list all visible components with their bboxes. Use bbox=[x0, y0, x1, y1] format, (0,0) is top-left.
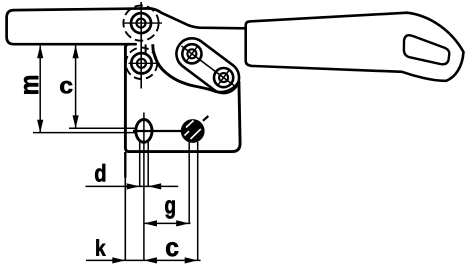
bottom dim line (k and c) bbox=[86, 259, 201, 261]
dim d line bbox=[86, 185, 179, 187]
pivot U1 inner circle bbox=[137, 19, 146, 28]
label c (upper) bbox=[60, 81, 72, 93]
spindle white hatch slits bbox=[185, 121, 201, 140]
label g bbox=[165, 200, 174, 218]
link pin A outer circle bbox=[182, 44, 201, 63]
hole edge extension left bbox=[139, 140, 141, 186]
hole edge extension right bbox=[147, 140, 149, 186]
hole to spindle centerline bbox=[133, 130, 184, 132]
dim m arrow up bbox=[37, 45, 43, 58]
pivot U2 horizontal centerline bbox=[129, 62, 158, 64]
pivot U1 horizontal centerline bbox=[123, 22, 162, 24]
dim k arrow right bbox=[112, 257, 125, 263]
link pin B perpendicular tick bbox=[218, 70, 229, 85]
pivot U2 dashed circle bbox=[126, 48, 157, 79]
link pin A inner circle bbox=[187, 49, 196, 58]
pivot U2 outer circle bbox=[131, 53, 151, 73]
dim c arrow up bbox=[73, 45, 79, 58]
spindle extension right line bbox=[197, 142, 199, 260]
body left edge extension line bbox=[124, 152, 126, 260]
pivot U1 dashed circle bbox=[123, 6, 158, 41]
flange short edge bbox=[145, 44, 147, 53]
link plate capsule bbox=[170, 32, 245, 99]
link pin B outer circle bbox=[214, 68, 233, 87]
dim m arrow down bbox=[37, 120, 43, 133]
handle grip slot bbox=[404, 35, 449, 64]
handle outline bbox=[246, 13, 464, 81]
label c (bottom) bbox=[166, 242, 178, 256]
dim c extension line bbox=[69, 127, 137, 129]
dim g arrow right bbox=[176, 220, 189, 226]
dim d arrow right bbox=[127, 183, 140, 189]
clamp arm (bar) outline bbox=[7, 8, 245, 44]
dim g line bbox=[144, 222, 191, 224]
body left edge extension thick segment bbox=[124, 152, 126, 178]
dim c arrow right bbox=[185, 257, 198, 263]
spindle extension left line bbox=[188, 142, 190, 223]
dim m vertical line bbox=[39, 46, 41, 133]
dim c arrow down bbox=[73, 115, 79, 128]
link pin B inner circle bbox=[219, 73, 228, 82]
label k bbox=[96, 239, 105, 255]
dim c vertical line bbox=[75, 46, 77, 129]
dim d arrow left bbox=[148, 183, 161, 189]
mounting hole ellipse bbox=[136, 119, 152, 142]
dim g arrow left bbox=[144, 220, 157, 226]
spindle hatched circle bbox=[182, 120, 204, 142]
fork lower outline and body outline bbox=[125, 44, 240, 151]
pivots common vertical centerline bbox=[140, 2, 142, 89]
dim m extension line bbox=[33, 132, 137, 134]
label d bbox=[95, 164, 105, 182]
mounting hole vertical centerline bbox=[143, 113, 145, 261]
pivot U1 outer circle bbox=[131, 13, 151, 33]
link axis centerline through pins bbox=[182, 46, 235, 86]
spindle tail tick bbox=[203, 116, 208, 121]
label m (rotated) bbox=[24, 76, 38, 94]
pivot U2 inner circle bbox=[137, 59, 146, 68]
dim k/c arrow left bbox=[144, 257, 157, 263]
link pin A perpendicular tick bbox=[186, 46, 197, 61]
